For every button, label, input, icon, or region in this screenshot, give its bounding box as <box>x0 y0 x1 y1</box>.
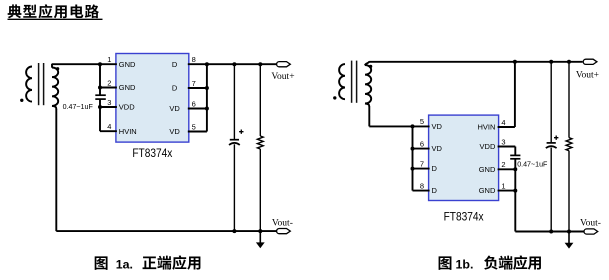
svg-text:7: 7 <box>192 79 196 88</box>
wire: output bus <box>206 64 208 131</box>
wire: bus down to C1 <box>99 64 101 95</box>
ground symbol (figure 1a) <box>259 231 261 243</box>
capacitor C1 0.47~1uF plates <box>95 94 106 96</box>
junction: C1 bus / top rail <box>98 62 102 66</box>
junction: R1 branch / top rail <box>258 62 262 66</box>
capacitor C4 (polarized) plus sign <box>554 136 558 140</box>
svg-text:2: 2 <box>107 78 111 87</box>
wire: pin 7 stub <box>188 87 207 89</box>
junction: R1 / bottom rail <box>258 229 262 233</box>
junction: pin 2 / bus <box>98 86 102 90</box>
wire: T2 secondary bottom down <box>368 107 370 127</box>
caption1 正端应用 <box>143 255 201 269</box>
svg-text:GND: GND <box>479 165 496 174</box>
svg-text:GND: GND <box>119 83 136 92</box>
junction: C2 branch / top rail <box>232 62 236 66</box>
wire: pin 2 stub <box>498 168 516 170</box>
connector Vout+ (1a) <box>277 62 291 67</box>
svg-text:D: D <box>432 164 438 173</box>
wire: C2 to bottom rail <box>233 144 235 231</box>
svg-text:GND: GND <box>119 60 136 69</box>
svg-text:D: D <box>172 60 178 69</box>
wire: top rail to Vout+ <box>207 63 277 65</box>
svg-text:4: 4 <box>107 122 111 131</box>
IC U2 FT8374x body <box>429 115 499 200</box>
wire: bottom rail to Vout- <box>56 230 277 232</box>
IC U1 FT8374x body <box>116 54 189 143</box>
svg-text:4: 4 <box>501 118 505 127</box>
resistor R1 <box>257 136 263 149</box>
svg-text:GND: GND <box>479 186 496 195</box>
caption2 负端应用 <box>484 255 541 269</box>
transformer T2 secondary winding <box>365 65 371 103</box>
wire: C1 bottom to pin 4 corner <box>99 99 101 131</box>
svg-text:VD: VD <box>169 104 180 113</box>
junction: pin 8 / top rail <box>205 62 209 66</box>
capacitor C3 0.47~1uF plates <box>510 154 520 156</box>
capacitor C2 (polarized) <box>230 139 239 141</box>
junction: pin 7 / bus <box>411 167 415 171</box>
junction: pin 6 / bus <box>205 107 209 111</box>
svg-text:HVIN: HVIN <box>477 123 495 132</box>
junction: C2 / bottom rail <box>232 229 236 233</box>
svg-text:1: 1 <box>107 55 111 64</box>
junction: pin 5 / bus <box>411 124 415 128</box>
svg-text:VD: VD <box>432 144 443 153</box>
svg-text:1: 1 <box>501 181 505 190</box>
junction: R2 / bottom rail <box>567 230 571 234</box>
caption2 图 <box>439 256 452 270</box>
connector Vout+ (1b) <box>583 59 597 64</box>
transformer T2 core <box>351 61 353 103</box>
svg-text:1b.: 1b. <box>456 257 474 271</box>
transformer T1 secondary winding <box>52 68 58 106</box>
junction: pin 2 / bus <box>513 167 517 171</box>
junction: pin 1 / bus <box>513 189 517 193</box>
resistor R2 <box>566 138 572 151</box>
wire: C4 to bottom rail <box>550 148 552 232</box>
svg-text:D: D <box>432 186 438 195</box>
svg-text:5: 5 <box>420 117 424 126</box>
svg-text:D: D <box>172 84 178 93</box>
svg-text:8: 8 <box>192 55 196 64</box>
wire: left bus (1b) <box>412 126 414 190</box>
junction: R2 branch / top rail <box>567 60 571 64</box>
wire: pin 1 stub <box>498 190 516 192</box>
junction: C4 / bottom rail <box>549 230 553 234</box>
wire: T1 secondary bottom down <box>55 109 57 231</box>
wire: bottom rail to Vout- (1b) <box>515 231 584 233</box>
svg-text:8: 8 <box>420 181 424 190</box>
wire: down to C2 <box>233 64 235 140</box>
wire: pin 8 stub <box>188 63 207 65</box>
svg-text:VD: VD <box>169 127 180 136</box>
wire: pin 4 stub <box>498 126 515 128</box>
transformer T1 phase dot (secondary) <box>56 67 59 70</box>
svg-text:6: 6 <box>420 139 424 148</box>
wire: R1 to bottom rail <box>259 149 261 231</box>
transformer T2 phase dot (secondary) <box>369 65 372 68</box>
connector Vout- (1a) <box>277 229 291 234</box>
capacitor C4 (polarized) <box>547 142 556 144</box>
junction: pin 6 / bus <box>411 147 415 151</box>
svg-text:5: 5 <box>192 122 196 131</box>
title 典型应用电路 <box>8 4 99 18</box>
wire: pin 3 stub <box>498 146 516 148</box>
wire: pin 6 stub <box>188 108 207 110</box>
transformer T2 phase dot (primary) <box>333 96 336 99</box>
transformer T1 core <box>38 63 40 105</box>
wire: pin 4 riser to top rail <box>514 62 516 127</box>
svg-text:6: 6 <box>192 99 196 108</box>
wire: C3 bottom down to bottom rail <box>514 159 516 232</box>
svg-text:7: 7 <box>420 159 424 168</box>
wire: pin 3 stub <box>100 106 117 108</box>
svg-text:0.47~1uF: 0.47~1uF <box>517 160 548 168</box>
wire: pin 8 stub <box>413 190 430 192</box>
svg-text:FT8374x: FT8374x <box>132 146 172 160</box>
wire: top rail to Vout+ (1b) <box>369 61 582 63</box>
wire: pin 7 stub <box>413 168 430 170</box>
svg-text:Vout-: Vout- <box>580 218 601 228</box>
junction: C4 branch / top rail <box>549 60 553 64</box>
svg-text:VDD: VDD <box>480 142 496 151</box>
transformer T1 primary winding <box>26 67 32 102</box>
wire: R2 to bottom rail <box>568 151 570 232</box>
wire: pin 4 stub <box>100 130 117 132</box>
ground symbol (figure 1b) <box>568 232 570 244</box>
wire: feed to pin 5 <box>369 125 429 127</box>
svg-text:2: 2 <box>501 160 505 169</box>
svg-text:VDD: VDD <box>119 103 135 112</box>
wire: down to R1 <box>259 64 261 136</box>
junction: pin 4 riser / top rail <box>513 60 517 64</box>
svg-text:VD: VD <box>432 122 443 131</box>
wire: down to C4 <box>550 62 552 143</box>
wire: down to R2 <box>568 62 570 138</box>
wire: pin 6 stub <box>413 148 430 150</box>
svg-text:3: 3 <box>107 98 111 107</box>
svg-text:0.47~1uF: 0.47~1uF <box>63 103 94 111</box>
wire: T1 top to U1 pin 1 <box>52 63 117 65</box>
junction: pin 3 / bus <box>98 105 102 109</box>
svg-text:3: 3 <box>501 137 505 146</box>
wire: pin 2 stub <box>100 87 117 89</box>
connector Vout- (1b) <box>584 229 598 234</box>
transformer T2 primary winding <box>339 64 345 99</box>
svg-text:HVIN: HVIN <box>119 127 137 136</box>
svg-text:Vout+: Vout+ <box>271 72 294 82</box>
capacitor C2 (polarized) plus sign <box>239 130 243 134</box>
junction: pin 7 / bus <box>205 86 209 90</box>
svg-text:Vout-: Vout- <box>272 218 293 228</box>
title underline <box>8 18 103 20</box>
wire: pin 3 down to C3 <box>514 147 516 156</box>
transformer T1 phase dot (primary) <box>20 99 23 102</box>
svg-text:FT8374x: FT8374x <box>444 209 484 223</box>
caption1 图 <box>95 256 108 270</box>
wire: pin 5 stub <box>188 131 207 133</box>
svg-text:1a.: 1a. <box>116 257 133 271</box>
svg-text:Vout+: Vout+ <box>576 70 599 80</box>
